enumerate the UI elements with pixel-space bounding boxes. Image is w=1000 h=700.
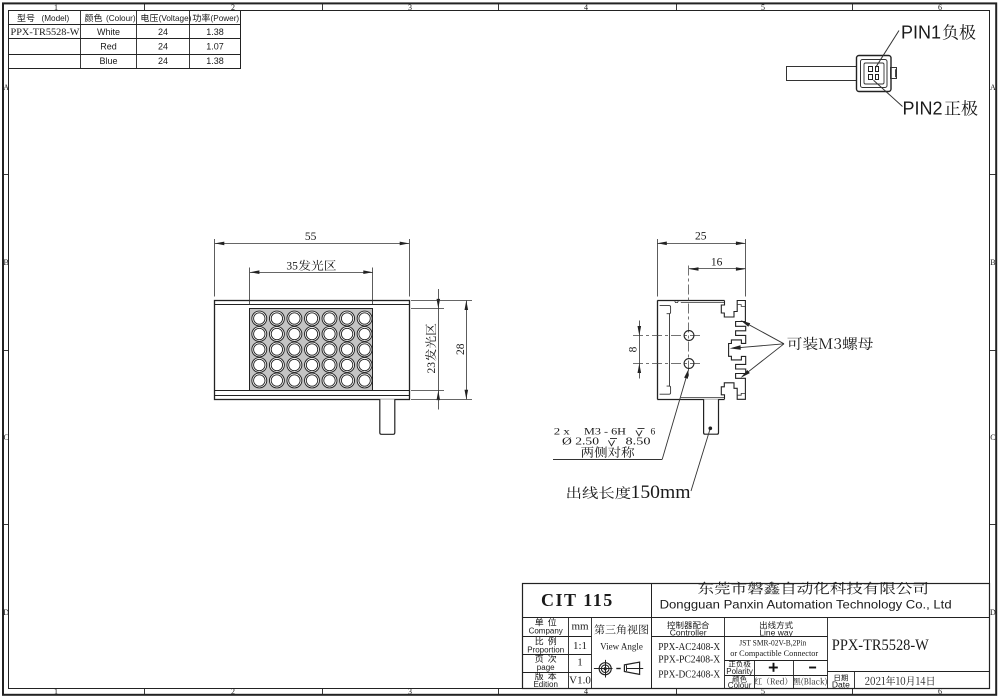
date value bbox=[865, 676, 934, 686]
svg-text:Colour: Colour bbox=[728, 681, 752, 690]
side view slot lip notches bbox=[737, 305, 745, 396]
svg-text:Ø 2.50: Ø 2.50 bbox=[562, 436, 599, 447]
thread note text bbox=[554, 427, 656, 447]
title block row labels bbox=[527, 618, 564, 689]
front view bottom rail lines bbox=[215, 391, 409, 396]
front view cable tab bbox=[380, 399, 395, 434]
svg-text:1.38: 1.38 bbox=[206, 56, 224, 66]
svg-text:24: 24 bbox=[158, 27, 168, 37]
svg-text:35: 35 bbox=[286, 261, 298, 273]
dimension 8 hole spacing bbox=[627, 321, 641, 379]
connector pin housing bbox=[864, 63, 884, 84]
svg-text:3: 3 bbox=[408, 687, 412, 696]
third angle view label bbox=[594, 624, 648, 651]
dimension 16 bbox=[689, 257, 745, 271]
controller header bbox=[667, 621, 709, 637]
svg-text:C: C bbox=[990, 433, 995, 442]
svg-text:2: 2 bbox=[231, 687, 235, 696]
svg-text:or Compactible Connector: or Compactible Connector bbox=[730, 648, 818, 658]
side view body left and edges bbox=[657, 301, 724, 400]
leader line PIN2 bbox=[874, 80, 903, 106]
front view body outline bbox=[215, 301, 410, 400]
svg-text:25: 25 bbox=[695, 231, 707, 243]
connector type note bbox=[730, 638, 818, 659]
title block grid bbox=[523, 583, 990, 688]
svg-text:Line way: Line way bbox=[759, 628, 793, 638]
svg-text:mm: mm bbox=[571, 621, 589, 633]
svg-text:4: 4 bbox=[584, 3, 588, 12]
svg-text:(Colour): (Colour) bbox=[106, 14, 136, 23]
label cable length 150mm bbox=[567, 483, 691, 503]
svg-text:Polarity: Polarity bbox=[726, 667, 753, 676]
svg-text:PPX-PC2408-X: PPX-PC2408-X bbox=[658, 654, 720, 666]
label M3 nut bbox=[787, 337, 873, 350]
svg-text:page: page bbox=[537, 663, 555, 672]
dimension 23 emitting area height bbox=[411, 289, 444, 410]
svg-text:B: B bbox=[990, 258, 995, 267]
connector pins 2x2 bbox=[869, 67, 879, 80]
svg-text:B: B bbox=[4, 258, 9, 267]
note leader underline bbox=[553, 369, 689, 460]
svg-text:16: 16 bbox=[711, 257, 723, 269]
svg-text:C: C bbox=[4, 433, 9, 442]
svg-text:Blue: Blue bbox=[99, 56, 117, 66]
svg-text:8.50: 8.50 bbox=[626, 436, 651, 447]
svg-text:Red: Red bbox=[100, 42, 117, 52]
svg-text:View Angle: View Angle bbox=[600, 642, 643, 652]
svg-text:PIN1: PIN1 bbox=[901, 23, 941, 43]
svg-text:Edition: Edition bbox=[533, 680, 557, 689]
leader line PIN1 bbox=[876, 31, 899, 68]
M3 hole lower bbox=[684, 359, 694, 369]
svg-text:A: A bbox=[3, 83, 9, 92]
svg-text:D: D bbox=[990, 608, 996, 617]
connector latch bbox=[891, 68, 897, 79]
dimension 25 width bbox=[657, 231, 745, 297]
svg-text:1.07: 1.07 bbox=[206, 42, 224, 52]
svg-text:V1.0: V1.0 bbox=[569, 675, 591, 687]
svg-text:White: White bbox=[97, 27, 120, 37]
LED array 7x5 bbox=[252, 311, 372, 388]
LED window bbox=[250, 309, 373, 391]
svg-text:A: A bbox=[990, 83, 996, 92]
svg-text:Proportion: Proportion bbox=[527, 646, 564, 655]
svg-text:(Power): (Power) bbox=[211, 14, 240, 23]
line way header bbox=[759, 621, 793, 637]
svg-text:8: 8 bbox=[627, 346, 639, 352]
colour label bbox=[728, 676, 752, 690]
hole centerline vertical bbox=[688, 266, 690, 378]
svg-text:55: 55 bbox=[305, 231, 317, 243]
svg-text:CIT 115: CIT 115 bbox=[541, 590, 614, 610]
svg-text:Company: Company bbox=[529, 627, 563, 636]
svg-text:PPX-DC2408-X: PPX-DC2408-X bbox=[658, 668, 720, 680]
svg-text:1:1: 1:1 bbox=[573, 640, 587, 652]
polarity plus bbox=[769, 663, 778, 672]
dimension 55 width bbox=[215, 231, 410, 297]
label PIN2 positive bbox=[903, 99, 978, 119]
connector cable bbox=[787, 67, 857, 81]
svg-text:(Voltage): (Voltage) bbox=[159, 14, 192, 23]
svg-text:3: 3 bbox=[408, 3, 412, 12]
hole centerline upper bbox=[633, 335, 703, 337]
svg-text:28: 28 bbox=[455, 343, 467, 355]
colour red bbox=[755, 677, 788, 685]
company name chinese bbox=[698, 582, 927, 595]
svg-text:23: 23 bbox=[426, 362, 438, 374]
colour black bbox=[793, 678, 827, 686]
svg-text:D: D bbox=[3, 608, 9, 617]
svg-text:PPX-TR5528-W: PPX-TR5528-W bbox=[832, 637, 930, 654]
svg-text:Controller: Controller bbox=[670, 628, 707, 638]
title block row values bbox=[569, 621, 591, 687]
svg-text:1.38: 1.38 bbox=[206, 27, 224, 37]
connector body outer bbox=[857, 56, 892, 92]
svg-text:PPX-AC2408-X: PPX-AC2408-X bbox=[658, 641, 720, 653]
svg-text:24: 24 bbox=[158, 42, 168, 52]
svg-text:JST SMR-02V-B,2Pin: JST SMR-02V-B,2Pin bbox=[739, 638, 807, 648]
svg-text:150mm: 150mm bbox=[631, 483, 692, 503]
svg-text:6: 6 bbox=[938, 3, 942, 12]
M3 hole upper bbox=[684, 331, 694, 341]
svg-text:24: 24 bbox=[158, 56, 168, 66]
note both sides symmetric bbox=[581, 446, 634, 457]
dimension 28 height bbox=[411, 301, 472, 400]
side view cable tab bbox=[704, 399, 719, 434]
side view right profile with T-slots and teeth bbox=[721, 301, 745, 400]
polarity label bbox=[726, 661, 753, 676]
svg-text:Date: Date bbox=[832, 679, 850, 689]
model table headers bbox=[17, 14, 239, 24]
side view C-channel flanges bbox=[660, 306, 671, 395]
date label bbox=[832, 674, 850, 689]
svg-text:Dongguan Panxin Automation Tec: Dongguan Panxin Automation Technology Co… bbox=[660, 598, 952, 612]
hole centerline lower bbox=[633, 363, 703, 365]
controller models bbox=[658, 641, 720, 680]
polarity minus bbox=[809, 667, 816, 669]
svg-text:1: 1 bbox=[54, 687, 58, 696]
model table values bbox=[11, 27, 224, 66]
dimension 35 emitting area bbox=[250, 260, 373, 305]
svg-text:PIN2: PIN2 bbox=[903, 99, 943, 119]
svg-text:1: 1 bbox=[577, 657, 583, 669]
leader cable length bbox=[691, 427, 712, 492]
svg-text:5: 5 bbox=[761, 3, 765, 12]
connector body inner bbox=[861, 60, 888, 88]
model table grid bbox=[9, 11, 241, 69]
third angle projection symbol bbox=[594, 660, 643, 678]
svg-text:PPX-TR5528-W: PPX-TR5528-W bbox=[11, 28, 80, 38]
label PIN1 negative bbox=[901, 23, 976, 43]
leaders to M3 nut slots bbox=[730, 320, 784, 378]
svg-text:6: 6 bbox=[651, 427, 656, 437]
front view top rail line bbox=[215, 304, 409, 306]
svg-text:(Model): (Model) bbox=[42, 14, 70, 23]
